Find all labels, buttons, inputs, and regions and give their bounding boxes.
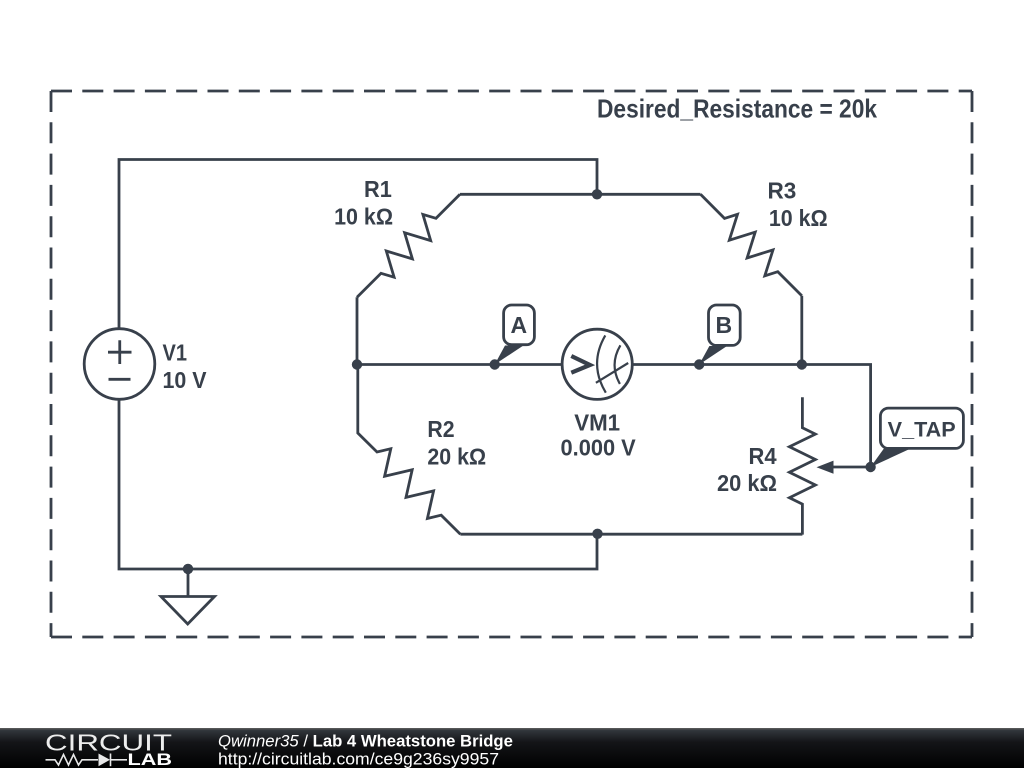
node A junction dot	[490, 359, 500, 369]
R4 wiper wire	[831, 466, 871, 469]
node V_TAP flag pointer	[871, 448, 911, 467]
node A flag pointer	[495, 346, 524, 365]
svg-text:Qwinner35 / Lab 4 Wheatstone B: Qwinner35 / Lab 4 Wheatstone Bridge	[218, 732, 513, 751]
svg-text:Desired_Resistance = 20k: Desired_Resistance = 20k	[597, 94, 877, 124]
svg-text:R4: R4	[749, 443, 777, 469]
svg-text:0.000 V: 0.000 V	[561, 435, 637, 461]
svg-text:10 kΩ: 10 kΩ	[769, 205, 828, 231]
VM1 arrow glyph	[571, 356, 590, 373]
resistor R2	[358, 365, 461, 535]
node junction bottom rail	[592, 529, 602, 539]
logo diode triangle	[99, 754, 111, 767]
node V_TAP junction dot	[865, 462, 875, 472]
wire R1 bottom to node A rail	[356, 297, 359, 364]
svg-text:http://circuitlab.com/ce9g236s: http://circuitlab.com/ce9g236sy9957	[218, 750, 499, 768]
node V_TAP flag box	[880, 408, 963, 448]
R4 wiper arrowhead	[817, 461, 834, 474]
wire top rail (R1 to R3)	[460, 193, 701, 196]
logo resistor-diode glyph	[46, 754, 128, 767]
potentiometer R4	[789, 397, 815, 534]
ground symbol	[161, 569, 215, 624]
resistor R1	[357, 194, 460, 297]
node B junction dot	[694, 359, 704, 369]
svg-text:20 kΩ: 20 kΩ	[427, 443, 486, 469]
svg-text:10 V: 10 V	[163, 367, 208, 393]
svg-text:V_TAP: V_TAP	[888, 419, 956, 442]
wire R2 to R4 bottom rail	[460, 533, 802, 536]
svg-text:R2: R2	[427, 416, 454, 442]
wire bridge rail A to VM1	[357, 363, 563, 366]
wire V1 top to top rail	[119, 160, 597, 330]
svg-text:R1: R1	[364, 176, 392, 202]
svg-text:B: B	[716, 312, 733, 338]
svg-text:A: A	[511, 312, 528, 338]
V1 minus sign	[109, 378, 131, 381]
voltage source V1	[84, 329, 155, 400]
svg-text:20 kΩ: 20 kΩ	[717, 470, 777, 496]
node B flag pointer	[699, 346, 727, 365]
wire V1 bottom to ground rail	[119, 399, 597, 569]
node junction R3/rail	[797, 359, 807, 369]
svg-text:R3: R3	[768, 178, 797, 204]
wire R3 bottom to rail	[800, 296, 803, 365]
resistor R3	[701, 194, 802, 295]
subcircuit dashed boundary box	[51, 91, 972, 637]
ground node dot	[183, 564, 193, 574]
svg-text:V1: V1	[163, 340, 188, 366]
node junction R1/R2/rail	[352, 359, 362, 369]
VM1 dial arc short	[615, 345, 621, 384]
VM1 dial arc long	[597, 335, 606, 392]
node B flag box	[709, 305, 741, 345]
svg-text:10 kΩ: 10 kΩ	[334, 204, 393, 230]
svg-text:LAB: LAB	[128, 751, 173, 768]
wire VM1 to B to R3 junction to right bend	[633, 365, 871, 468]
node A flag box	[504, 305, 535, 345]
svg-text:VM1: VM1	[574, 409, 620, 435]
watermark bar	[0, 728, 1024, 768]
node junction top rail	[592, 189, 602, 199]
voltmeter VM1	[562, 329, 632, 399]
V1 plus sign	[108, 340, 132, 364]
VM1 needle	[596, 363, 628, 383]
